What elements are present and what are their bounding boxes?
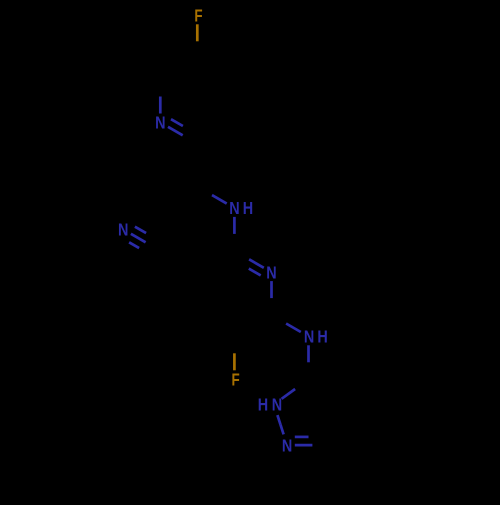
svg-text:N: N (118, 220, 128, 240)
bond CH2-NH linker (N half) (212, 195, 227, 204)
bond C6-NH to pyrazolylamine (N half) (286, 324, 301, 333)
bond C5-F of top pyridine (F half) (196, 24, 199, 41)
double bond N2=C3 pyrazole, inner line (N half) (295, 436, 309, 439)
double bond N1=C2 top pyridine, main line (N half) (168, 127, 183, 136)
nitrile C#N offset lines (N halves) (129, 227, 146, 248)
svg-text:N: N (282, 435, 292, 455)
svg-text:F: F (232, 369, 240, 389)
svg-text:F: F (194, 6, 202, 26)
bond N1-N2 of pyrazole (full, N-N) (277, 415, 283, 434)
nitrile C#N main line (N half) (131, 234, 146, 243)
double bond N1=C2 top pyridine, inner line (N half) (171, 119, 183, 126)
svg-text:N: N (266, 262, 276, 282)
bond C5-N1 of pyrazole (N half) (282, 389, 296, 399)
bond NH-C2 central ring (N half) (233, 217, 236, 234)
bond C6-N1 of top pyridine (N half) (159, 97, 162, 114)
bond C5-F central ring (F half) (233, 353, 236, 370)
bond NH-C5 of pyrazole (N half) (307, 345, 310, 362)
svg-text:N: N (155, 113, 165, 133)
bond N1-C6 central ring (N half) (270, 281, 273, 298)
double bond C2=N1 central ring, main line (N half) (249, 259, 264, 268)
double bond C2=N1 central ring, inner line (N half) (249, 269, 261, 276)
double bond N2=C3 pyrazole, main line (N half) (295, 444, 313, 447)
